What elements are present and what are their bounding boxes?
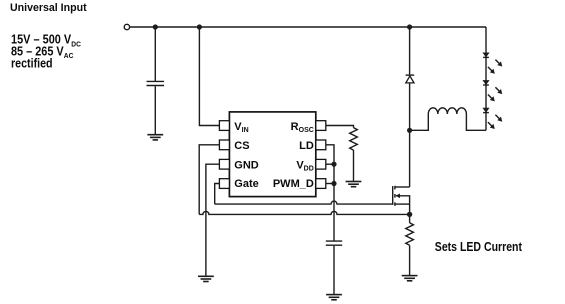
diode D1 freewheeling	[406, 75, 415, 83]
svg-text:AC: AC	[64, 53, 74, 60]
pin box LD	[316, 140, 326, 150]
wire VIN branch	[199, 27, 219, 126]
inductor L1	[428, 108, 466, 114]
wire GND branch	[206, 164, 220, 276]
node VIN tap	[197, 24, 202, 29]
op-amp U1 LED driver IC body	[229, 112, 315, 197]
wire ROSC lead	[326, 126, 354, 128]
pin box Gate	[219, 179, 229, 189]
capacitor C1 input cap	[147, 81, 165, 85]
node input cap tap	[153, 24, 158, 29]
svg-text:LD: LD	[299, 140, 314, 152]
wire LD branch vertical to VDD bypass	[326, 145, 334, 241]
wire C2 lower lead	[333, 246, 335, 294]
wire VDD lead	[326, 163, 334, 165]
wire LED string vertical	[485, 27, 487, 130]
ground R2	[402, 276, 418, 281]
svg-text:CS: CS	[234, 140, 249, 152]
svg-text:rectified: rectified	[11, 56, 53, 71]
svg-text:GND: GND	[234, 159, 258, 171]
LED D3 emission arrows	[488, 87, 502, 101]
node MOSFET source / CS sense	[407, 212, 412, 217]
LED D4 emission arrows	[488, 115, 502, 129]
svg-text:Gate: Gate	[234, 178, 258, 190]
wire R2 lower lead	[409, 245, 411, 275]
pin box ROSC	[316, 121, 326, 131]
wire CS branch with hops	[199, 145, 409, 215]
node PWM_D junction	[331, 181, 336, 186]
pin box GND	[219, 159, 229, 169]
LED D2 emission arrows	[488, 60, 502, 74]
wire R1 lower lead	[353, 150, 355, 181]
wire PWM_D lead	[326, 183, 334, 185]
svg-text:PWM_D: PWM_D	[273, 178, 314, 190]
svg-text:DC: DC	[71, 41, 81, 48]
wire input cap upper lead	[154, 27, 156, 81]
input terminal	[124, 24, 129, 29]
ground GND pin	[198, 276, 214, 281]
wire MOSFET drain lead	[409, 130, 411, 187]
resistor R1 ROSC	[350, 128, 358, 151]
wire R2 upper lead	[409, 214, 411, 222]
node VDD junction	[331, 162, 336, 167]
wire top rail	[130, 26, 486, 28]
LED D4	[483, 108, 489, 113]
ground input cap	[147, 135, 163, 140]
pin box VDD	[316, 159, 326, 169]
svg-text:Sets LED Current: Sets LED Current	[435, 239, 523, 254]
LED D2	[483, 53, 489, 58]
transistor Q1 power MOSFET	[393, 186, 410, 215]
wire diode lower lead	[409, 83, 411, 130]
wire inductor right lead	[466, 114, 486, 130]
LED D3	[483, 81, 489, 86]
capacitor C2 VDD bypass	[326, 241, 342, 245]
node inductor tap	[407, 128, 412, 133]
wire diode upper lead	[409, 27, 411, 74]
pin box VIN	[219, 121, 229, 131]
pin box CS	[219, 140, 229, 150]
wire Gate branch with hop	[215, 184, 394, 205]
svg-text:Universal Input: Universal Input	[10, 2, 87, 14]
node diode top	[407, 24, 412, 29]
pin box PWM_D	[316, 179, 326, 189]
ground C2	[326, 295, 342, 300]
wire input cap lower lead	[154, 86, 156, 134]
resistor R2 current sense	[406, 223, 414, 246]
ground R1	[346, 182, 362, 187]
wire inductor left lead	[410, 114, 429, 130]
